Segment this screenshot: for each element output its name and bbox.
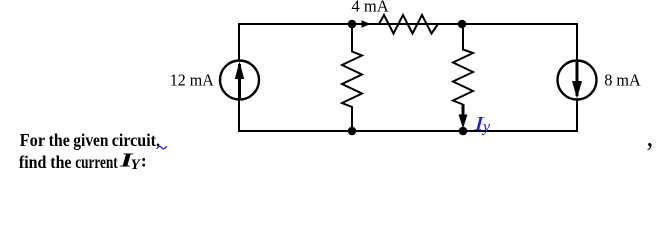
svg-text:y: y bbox=[481, 119, 491, 136]
svg-text:find the: find the bbox=[19, 152, 72, 172]
wire bottom bbox=[238, 130, 578, 132]
wire top bbox=[238, 23, 578, 25]
junction node top-left bbox=[348, 20, 357, 29]
resistor middle (vertical) bbox=[342, 25, 362, 131]
resistor right (vertical) bbox=[453, 25, 473, 105]
wire right branch bbox=[576, 23, 578, 132]
current source 12 mA (left) bbox=[220, 61, 259, 100]
resistor top (horizontal) bbox=[379, 15, 438, 34]
svg-text:For: For bbox=[20, 130, 46, 150]
svg-text:4 mA: 4 mA bbox=[352, 0, 389, 16]
svg-text:given: given bbox=[73, 130, 108, 150]
svg-text::: : bbox=[141, 151, 147, 171]
current direction arrow 4 mA bbox=[362, 20, 371, 28]
svg-text:,: , bbox=[647, 122, 654, 152]
junction node bottom-left bbox=[348, 127, 357, 136]
junction node top-right bbox=[458, 20, 467, 29]
junction node bottom-right bbox=[459, 127, 468, 136]
svg-text:8 mA: 8 mA bbox=[604, 71, 641, 90]
current source 8 mA (right) bbox=[558, 61, 597, 100]
grammar squiggle bbox=[158, 146, 168, 149]
svg-text:circuit,: circuit, bbox=[112, 130, 160, 150]
svg-text:current: current bbox=[75, 152, 118, 172]
svg-text:12 mA: 12 mA bbox=[170, 71, 214, 90]
svg-text:the: the bbox=[49, 130, 70, 150]
current arrow Iy bbox=[459, 104, 468, 129]
caption line 2 bbox=[19, 151, 147, 174]
wire left branch bbox=[238, 23, 240, 132]
caption line 1 bbox=[20, 130, 160, 150]
